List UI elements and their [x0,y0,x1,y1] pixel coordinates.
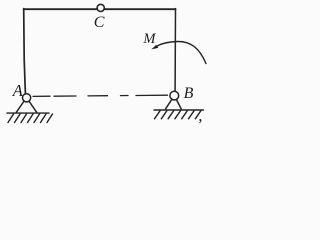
svg-text:C: C [94,14,105,31]
svg-text:M: M [142,31,156,47]
svg-text:A: A [12,81,24,100]
svg-text:,: , [198,106,202,125]
svg-text:B: B [184,85,194,102]
